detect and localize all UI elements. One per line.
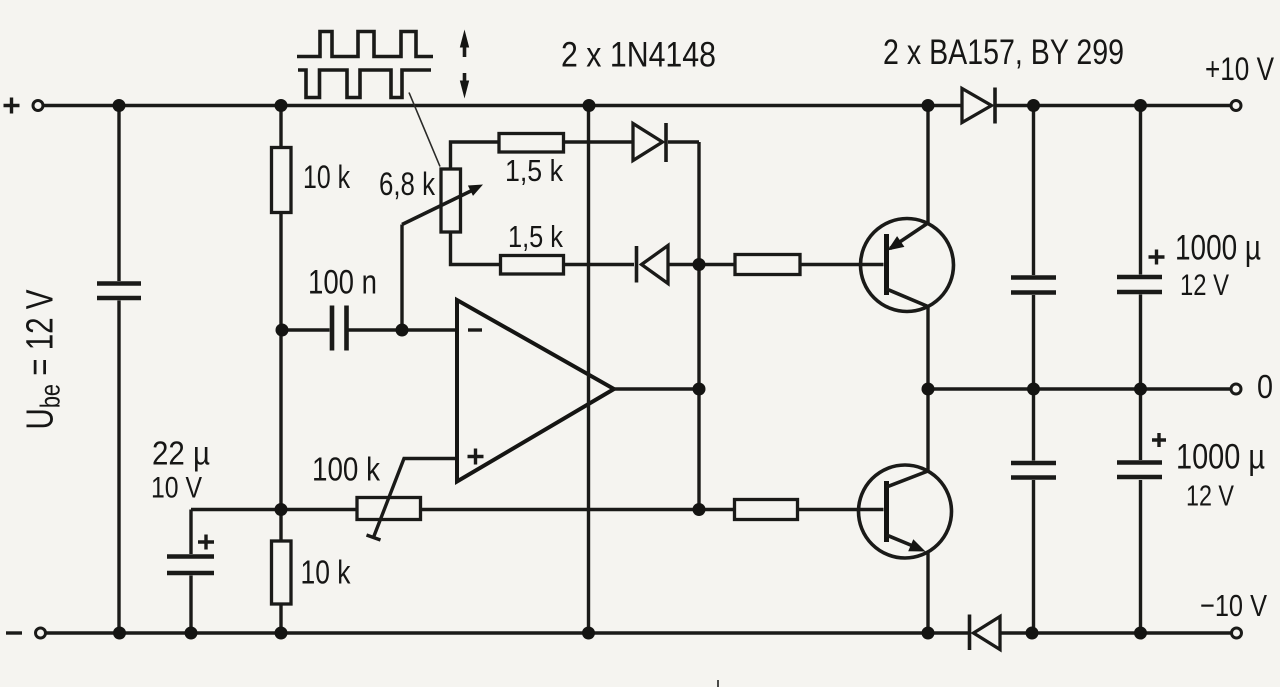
wire: Q2 collector to 0V output rail <box>926 389 929 471</box>
svg-text:100 k: 100 k <box>312 451 380 488</box>
svg-text:2 x BA157, BY 299: 2 x BA157, BY 299 <box>883 33 1124 72</box>
junction: bottom rail / R2 <box>275 627 288 640</box>
arrow down (duty cycle) <box>463 73 467 86</box>
junction: 0V rail / C4-C5 <box>1027 383 1040 396</box>
junction: divider node / R2 <box>275 503 288 516</box>
svg-text:1,5 k: 1,5 k <box>505 153 563 188</box>
svg-text:1000 µ: 1000 µ <box>1176 438 1265 477</box>
capacitor C1 (input smoothing) <box>117 106 120 634</box>
capacitor C2 22u electrolytic <box>189 510 192 634</box>
junction: top rail / C1 <box>113 99 126 112</box>
svg-text:12 V: 12 V <box>1180 269 1229 302</box>
svg-text:10 V: 10 V <box>151 472 202 505</box>
junction: bottom rail / C2 <box>185 627 198 640</box>
terminal: +12V input (top left) <box>33 101 43 111</box>
capacitor C3 100n timing <box>282 328 457 331</box>
svg-text:100 n: 100 n <box>308 264 377 302</box>
wire: op-amp supply line (through symbol) <box>587 106 590 634</box>
junction: top rail / Q1 emitter <box>922 99 935 112</box>
resistor R6 base resistor Q2 <box>735 500 798 520</box>
svg-text:1,5 k: 1,5 k <box>508 219 563 254</box>
junction: 0V rail / C6-C7 <box>1134 383 1147 396</box>
junction: D2 / R5 node <box>693 258 706 271</box>
svg-text:10 k: 10 k <box>301 554 351 591</box>
svg-text:0: 0 <box>1257 368 1273 405</box>
wire: vertical diode/output junction line x=699 <box>697 142 700 510</box>
junction: inverting node / P1 wiper <box>396 324 409 337</box>
junction: 0V rail / Q1-Q2 <box>922 383 935 396</box>
resistor R2 10k lower <box>279 510 282 634</box>
wire: op-amp output <box>614 387 699 390</box>
annotation line from waveform to P1 <box>409 93 440 167</box>
wire: top +12V supply rail <box>44 104 1231 107</box>
transistor Q1 (PNP) <box>861 219 954 312</box>
terminal: 0V input (bottom left) <box>36 628 46 638</box>
junction: top rail / C4 <box>1027 99 1040 112</box>
svg-text:10 k: 10 k <box>303 159 351 195</box>
capacitor C7 1000u lower electrolytic <box>1139 389 1142 633</box>
square wave symbol (lower trace) <box>298 70 431 98</box>
svg-text:6,8 k: 6,8 k <box>379 166 436 202</box>
svg-text:2 x 1N4148: 2 x 1N4148 <box>561 36 716 75</box>
diode D4 BA157 bottom rail <box>968 615 972 651</box>
resistor R3 1.5k upper <box>499 134 564 153</box>
svg-text:12 V: 12 V <box>1186 481 1235 513</box>
square wave symbol (upper trace) <box>297 32 433 57</box>
capacitor C4 (x=1033 upper) <box>1032 106 1035 390</box>
potentiometer P2 100k <box>357 498 421 520</box>
junction: divider run / vertical x=699 <box>693 503 706 516</box>
terminal: +10V output <box>1231 101 1241 111</box>
potentiometer P1 6.8k <box>441 169 461 232</box>
resistor R4 1.5k lower <box>501 256 564 275</box>
junction: top rail / op-amp supply <box>583 99 596 112</box>
junction: bottom rail / C7 <box>1134 627 1147 640</box>
junction: op-amp output node <box>693 383 706 396</box>
diode D3 BA157 top rail <box>962 89 992 123</box>
diode D2 1N4148 <box>635 246 639 283</box>
junction: bottom rail / op-amp supply <box>582 627 595 640</box>
label: - polarity of input <box>6 631 22 634</box>
svg-text:22 µ: 22 µ <box>152 435 210 472</box>
label: + polarity of input <box>4 98 20 114</box>
svg-text:1000 µ: 1000 µ <box>1175 229 1261 268</box>
wire: Q1 emitter to top rail <box>926 106 929 224</box>
wire: bottom 0V supply rail <box>47 631 1231 634</box>
capacitor C6 1000u upper electrolytic <box>1139 106 1142 390</box>
svg-text:+10 V: +10 V <box>1205 51 1275 87</box>
junction: top rail / R1 <box>275 99 288 112</box>
diode D1 1N4148 <box>633 124 663 161</box>
resistor R5 base resistor Q1 <box>699 263 884 266</box>
junction: top rail / C6 <box>1134 99 1147 112</box>
wire: Q2 emitter to bottom rail <box>926 553 929 634</box>
junction: bottom rail / Q2 emitter <box>922 627 935 640</box>
wire: 0V output rail <box>928 387 1231 390</box>
wire: divider node to 100k pot and base resistor run (y=509.5) <box>191 508 884 511</box>
arrow up (duty cycle) <box>463 44 467 57</box>
transistor Q2 (NPN) <box>859 465 952 558</box>
junction: bottom rail / C1 <box>113 627 126 640</box>
svg-text:Ube = 12 V: Ube = 12 V <box>20 289 66 430</box>
artifact tick bottom center <box>717 680 719 687</box>
svg-text:−10 V: −10 V <box>1200 588 1267 623</box>
op-amp U1 <box>457 300 614 482</box>
junction: inverting node / R1 <box>276 324 289 337</box>
wire: R1 bottom to divider node <box>279 330 282 510</box>
terminal: -10V output <box>1232 628 1242 638</box>
capacitor C5 (x=1033 lower) <box>1032 389 1035 633</box>
wire: Q1 collector to 0V output rail <box>926 307 929 390</box>
wire: P1 wiper to inverting input node <box>400 225 403 331</box>
junction: bottom rail / C5 <box>1026 627 1039 640</box>
resistor R1 10k upper <box>279 106 282 331</box>
terminal: 0V output <box>1231 384 1241 394</box>
label: Ube = 12 V (rotated) <box>20 289 66 430</box>
